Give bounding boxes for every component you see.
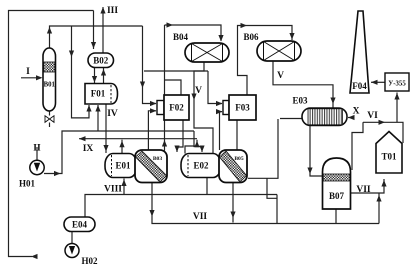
svg-text:B03: B03 <box>153 156 163 162</box>
svg-text:E04: E04 <box>72 220 88 230</box>
svg-text:VII: VII <box>356 185 371 195</box>
svg-text:F01: F01 <box>91 89 106 99</box>
svg-text:V: V <box>277 71 284 81</box>
svg-text:X: X <box>353 107 360 117</box>
svg-text:B01: B01 <box>44 82 56 89</box>
svg-text:E03: E03 <box>292 96 308 106</box>
svg-text:VIII: VIII <box>104 185 122 195</box>
svg-text:VII: VII <box>193 212 208 222</box>
svg-text:T01: T01 <box>381 152 397 162</box>
svg-text:B05: B05 <box>234 156 244 162</box>
svg-text:B02: B02 <box>93 56 109 66</box>
svg-text:II: II <box>33 144 41 154</box>
svg-text:E01: E01 <box>115 161 131 171</box>
svg-text:B07: B07 <box>329 191 345 201</box>
svg-text:E02: E02 <box>193 161 209 171</box>
svg-text:B04: B04 <box>173 32 189 42</box>
svg-text:У-355: У-355 <box>388 81 406 88</box>
svg-text:H01: H01 <box>19 179 36 189</box>
svg-text:III: III <box>107 6 118 16</box>
svg-text:H02: H02 <box>81 256 98 266</box>
svg-text:VI: VI <box>367 111 378 121</box>
svg-text:B06: B06 <box>243 32 259 42</box>
svg-text:F03: F03 <box>235 103 250 113</box>
svg-text:F04: F04 <box>352 81 367 91</box>
svg-text:I: I <box>26 67 30 77</box>
svg-text:IV: IV <box>107 109 118 119</box>
svg-text:V: V <box>195 86 202 96</box>
svg-text:F02: F02 <box>169 103 184 113</box>
svg-text:IX: IX <box>83 144 94 154</box>
